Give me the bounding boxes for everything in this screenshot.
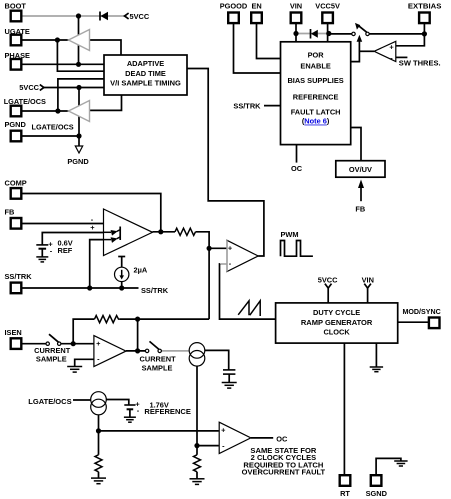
switch S1 EXTBIAS contacts — [352, 32, 355, 35]
op-amp U2 lower gate driver (grey) — [69, 101, 90, 122]
svg-text:ADAPTIVE: ADAPTIVE — [127, 59, 164, 68]
pad COMP — [11, 188, 22, 199]
pad LGATE/OCS — [11, 106, 22, 117]
svg-text:SS/TRK: SS/TRK — [5, 272, 33, 281]
wire current source to 1.76V reference — [106, 400, 129, 405]
current source 2uA circle — [115, 267, 129, 281]
svg-text:5VCC: 5VCC — [130, 12, 150, 21]
svg-text:MOD/SYNC: MOD/SYNC — [403, 307, 442, 316]
wire OC - input — [197, 445, 219, 447]
current source LGATE/OCS circles — [91, 392, 107, 408]
op-amp error amplifier — [104, 209, 153, 256]
op-amp OC comparator — [219, 422, 251, 453]
node PGND branch — [76, 133, 81, 138]
pad ISEN — [11, 338, 22, 349]
svg-text:VCC5V: VCC5V — [315, 2, 340, 11]
svg-text:POR: POR — [308, 51, 325, 60]
svg-text:VIN: VIN — [362, 276, 374, 285]
chevron 5VCC above duty block — [325, 284, 332, 289]
wire ISEN switch to sample amp + input — [61, 343, 94, 345]
svg-text:DEAD TIME: DEAD TIME — [125, 69, 166, 78]
wire FB arrow stem into OV/UV — [360, 188, 362, 202]
pad UGATE — [11, 35, 22, 46]
wire VCC5V pad down into block — [327, 24, 329, 42]
ground below duty block — [370, 366, 383, 368]
svg-text:5VCC: 5VCC — [318, 276, 338, 285]
switch S2 blade — [49, 334, 59, 342]
wire ISEN pad to switch — [22, 343, 46, 345]
wire UGATE branch down to block input 2 — [57, 40, 104, 71]
op-amp SW THRES comparator — [374, 41, 396, 61]
node SS/TRK third input — [87, 285, 92, 290]
svg-text:SS/TRK: SS/TRK — [141, 286, 169, 295]
current mirror circles — [189, 343, 205, 359]
svg-text:5VCC: 5VCC — [19, 83, 39, 92]
svg-text:LGATE/OCS: LGATE/OCS — [4, 97, 46, 106]
wire PWM + input — [209, 247, 227, 249]
svg-text:OC: OC — [291, 164, 303, 173]
switch S2 current sample contacts — [46, 342, 49, 345]
svg-text:REFERENCE: REFERENCE — [144, 407, 191, 416]
svg-text:EN: EN — [251, 2, 261, 11]
ground below sample amp — [67, 366, 82, 368]
node BOOT-diode junction — [76, 13, 81, 18]
wire SS/TRK to error amp third input — [90, 240, 104, 288]
pad RT — [340, 475, 351, 486]
pad SS/TRK — [11, 283, 22, 294]
diode clamp shared cathode bar — [119, 227, 121, 241]
PWM comparator left edge grey — [226, 240, 228, 271]
svg-text:ISEN: ISEN — [5, 328, 22, 337]
diode D1 bootstrap cathode bar — [99, 12, 101, 21]
wire BOOT rail through upper driver to PHASE node — [78, 16, 80, 64]
svg-text:CLOCK: CLOCK — [323, 327, 350, 336]
diode error amp clamp 2 — [104, 239, 112, 241]
resistor R3 OC sense vertical — [194, 455, 201, 472]
svg-text:ENABLE: ENABLE — [300, 62, 330, 71]
wire 5VCC rail through lower driver to PGND node — [78, 88, 80, 147]
svg-text:OC: OC — [276, 434, 288, 443]
wire ISEN node up to resistor rail — [73, 319, 94, 344]
wire 0.6V ref to error amp + input — [42, 233, 103, 245]
node VCC5V junction — [326, 31, 331, 36]
svg-text:LGATE/OCS: LGATE/OCS — [32, 122, 74, 131]
svg-text:+: + — [221, 426, 226, 435]
node OC - input — [194, 443, 199, 448]
svg-text:UGATE: UGATE — [5, 27, 30, 36]
pad VIN — [291, 13, 302, 24]
wire VIN pad down into block — [295, 24, 297, 42]
wire VCC5V node to switch — [329, 33, 352, 35]
wire duty block to RT pad — [343, 343, 345, 474]
svg-text:FAULT LATCH: FAULT LATCH — [291, 107, 341, 116]
ground SGND — [394, 460, 407, 462]
svg-text:PGOOD: PGOOD — [220, 2, 248, 11]
op-amp PWM comparator — [227, 240, 258, 271]
node ISEN switch — [71, 341, 76, 346]
svg-text:SW THRES.: SW THRES. — [399, 58, 441, 67]
svg-text:SAMPLE: SAMPLE — [36, 354, 67, 363]
chevron 5VCC at BOOT diode — [125, 13, 129, 19]
svg-text:SS/TRK: SS/TRK — [233, 101, 261, 110]
wire upper driver output to block top — [90, 40, 122, 55]
diode D2 VIN-VCC5V arrow — [311, 30, 318, 38]
wire 5VCC into duty block — [327, 288, 329, 303]
pad EN — [251, 13, 262, 24]
pad SGND — [371, 475, 382, 486]
svg-text:PWM: PWM — [281, 230, 299, 239]
block DUTY CYCLE RAMP GENERATOR CLOCK — [276, 303, 398, 343]
wire VIN-VCC5V link (grey) — [296, 33, 329, 35]
pad PHASE — [11, 59, 22, 70]
svg-text:FB: FB — [355, 205, 365, 214]
node UGATE branch — [55, 37, 60, 42]
wire 2uA source top T bar stem — [121, 257, 123, 268]
op-amp U1 upper gate driver (grey) — [69, 30, 90, 51]
svg-text:(Note 6): (Note 6) — [302, 117, 330, 126]
waveform PWM square wave — [281, 241, 313, 257]
diode error amp clamp 1 — [104, 231, 112, 233]
node LGATE branch — [55, 108, 60, 113]
node 5VCC branch — [76, 85, 81, 90]
wire POR enable to switch control arrow — [351, 41, 360, 62]
waveform sawtooth ramp — [238, 301, 260, 316]
wire FB pad to error amp - input — [22, 223, 104, 225]
svg-text:V/I SAMPLE TIMING: V/I SAMPLE TIMING — [110, 78, 181, 87]
diode D1 bootstrap arrow — [101, 12, 109, 20]
svg-text:SAMPLE: SAMPLE — [142, 363, 173, 372]
node PHASE branch — [76, 62, 81, 67]
node VIN junction — [293, 31, 298, 36]
svg-text:EXTBIAS: EXTBIAS — [408, 2, 442, 11]
wire duty block to ground — [375, 343, 377, 367]
wire current source down to OC + rail — [98, 415, 100, 455]
pad VCC5V — [322, 13, 333, 24]
svg-text:RT: RT — [340, 489, 350, 498]
pad PGOOD — [228, 13, 239, 24]
chevron 5VCC left — [40, 85, 44, 91]
svg-text:OVERCURRENT FAULT: OVERCURRENT FAULT — [242, 468, 326, 477]
wire PHASE pad to block input 1 — [22, 63, 104, 65]
wire PWM comparator output up to adaptive block — [187, 69, 264, 257]
wire SW THRES - input stub — [396, 56, 408, 58]
node LGATE/OCS source — [96, 428, 101, 433]
svg-text:+: + — [389, 43, 394, 52]
ground below resistor R3 — [190, 478, 205, 480]
svg-text:REFERENCE: REFERENCE — [293, 92, 339, 101]
wire current mirror down to OC comparator - node — [196, 366, 198, 455]
wire sample amp output to switch 2 — [126, 350, 145, 352]
ground below capacitor — [222, 382, 237, 384]
wire COMP pad to error amp output node — [22, 194, 161, 232]
switch S1 blade arrowhead — [355, 23, 360, 30]
resistor R1 error amp output — [175, 228, 196, 235]
pad EXTBIAS — [419, 13, 430, 24]
svg-text:VIN: VIN — [290, 2, 302, 11]
arrow FB into OV/UV — [358, 180, 364, 189]
node 2uA source tie — [119, 285, 124, 290]
resistor R2 LGATE/OCS vertical — [95, 455, 102, 472]
wire LGATE/OCS label to current source — [73, 399, 91, 401]
wire error amp output to resistor — [153, 231, 176, 233]
block POR ENABLE BIAS — [281, 42, 351, 145]
arrow switch control from POR — [357, 35, 363, 42]
node resistor rail — [135, 317, 140, 322]
switch S3 blade — [150, 341, 160, 349]
ground below 1.76V ref — [124, 416, 136, 418]
battery 0.6V REF plates — [36, 244, 48, 246]
pad PGND — [11, 131, 22, 142]
pad BOOT — [11, 11, 22, 22]
block ADAPTIVE DEAD TIME — [104, 55, 187, 95]
wire SS/TRK pad rail — [22, 287, 139, 289]
svg-text:+: + — [96, 339, 101, 348]
svg-text:DUTY CYCLE: DUTY CYCLE — [313, 308, 360, 317]
svg-text:RAMP GENERATOR: RAMP GENERATOR — [301, 318, 373, 327]
svg-text:COMP: COMP — [5, 178, 27, 187]
capacitor sample hold — [223, 369, 235, 371]
blocks — [104, 42, 398, 343]
wire PGOOD to POR block — [234, 24, 281, 73]
wire UGATE pad to driver — [22, 39, 69, 41]
wire 2uA source top T bar — [118, 256, 125, 258]
svg-text:SGND: SGND — [366, 489, 388, 498]
arrow PGND (open) — [75, 146, 82, 153]
block OV/UV — [336, 161, 385, 178]
svg-text:PGND: PGND — [67, 157, 89, 166]
node sample amp output — [135, 348, 140, 353]
svg-text:BIAS SUPPLIES: BIAS SUPPLIES — [287, 76, 343, 85]
wire VIN into duty block — [367, 288, 369, 303]
svg-text:OV/UV: OV/UV — [349, 165, 372, 174]
wire resistor to PWM comparator + input — [196, 232, 210, 319]
wire LGATE/OCS pad to driver — [22, 110, 69, 112]
ground below resistor R2 — [91, 477, 106, 479]
switch S3 current sample contacts — [145, 349, 148, 352]
svg-text:BOOT: BOOT — [5, 2, 27, 11]
svg-text:+: + — [90, 223, 95, 232]
wire EN to POR block — [257, 24, 281, 59]
wire resistor rail right segment — [120, 318, 209, 320]
wire LGATE branch up to block input 3 — [58, 79, 104, 111]
wire POR block to OV/UV block — [351, 128, 361, 161]
wire OC stub below POR block — [296, 145, 298, 163]
node PWM + input — [207, 246, 212, 251]
wire sample amp - input to ground — [75, 359, 94, 366]
svg-text:REF: REF — [58, 246, 73, 255]
svg-text:FB: FB — [5, 208, 15, 217]
node error amp output / COMP — [158, 229, 163, 234]
svg-text:+: + — [228, 243, 233, 252]
wire PWM - input from ramp — [220, 263, 228, 265]
pad MOD/SYNC — [429, 318, 440, 329]
wire current mirror to hold capacitor — [205, 350, 229, 370]
wire lower driver input from block bottom — [90, 95, 122, 110]
wire switch 2 to current mirror (grey) — [161, 350, 189, 352]
wire switch to EXTBIAS node — [369, 33, 424, 35]
driver and comparator symbols — [36, 12, 407, 485]
wire SGND pad to ground — [376, 458, 401, 474]
wire 5VCC left to block input 4 — [44, 87, 105, 89]
wire SS/TRK mid label to POR block — [264, 105, 281, 107]
chevron VIN above duty block — [364, 284, 371, 289]
ground below 0.6V ref — [36, 256, 48, 258]
diode D2 VIN-VCC5V cathode bar — [310, 29, 312, 39]
op-amp current sample amplifier — [94, 336, 126, 367]
wire EXTBIAS node to SW THRES + input — [396, 34, 425, 46]
pad FB — [11, 218, 22, 229]
wire 2uA source to SS/TRK rail — [121, 282, 123, 289]
wire PGND pad to node — [22, 135, 79, 137]
svg-text:2µA: 2µA — [134, 266, 148, 275]
svg-text:LGATE/OCS: LGATE/OCS — [28, 397, 71, 406]
wire EXTBIAS pad down — [423, 24, 425, 34]
wire SW THRES output to switch control — [359, 50, 374, 52]
wire BOOT to diode to 5VCC (grey) — [22, 15, 125, 17]
wire OC comparator output — [251, 437, 273, 439]
switch S1 blade — [358, 25, 367, 32]
resistor R4 ISEN rail — [95, 316, 121, 323]
svg-text:CURRENT: CURRENT — [140, 355, 177, 364]
wire duty block to MOD/SYNC pad — [398, 321, 428, 323]
svg-text:PGND: PGND — [5, 120, 27, 129]
wire OC + input rail — [99, 430, 219, 432]
svg-text:PHASE: PHASE — [5, 51, 31, 60]
node EXTBIAS junction — [422, 31, 427, 36]
battery 1.76V reference plates — [124, 404, 135, 406]
wire node to sample amp output — [137, 319, 139, 351]
